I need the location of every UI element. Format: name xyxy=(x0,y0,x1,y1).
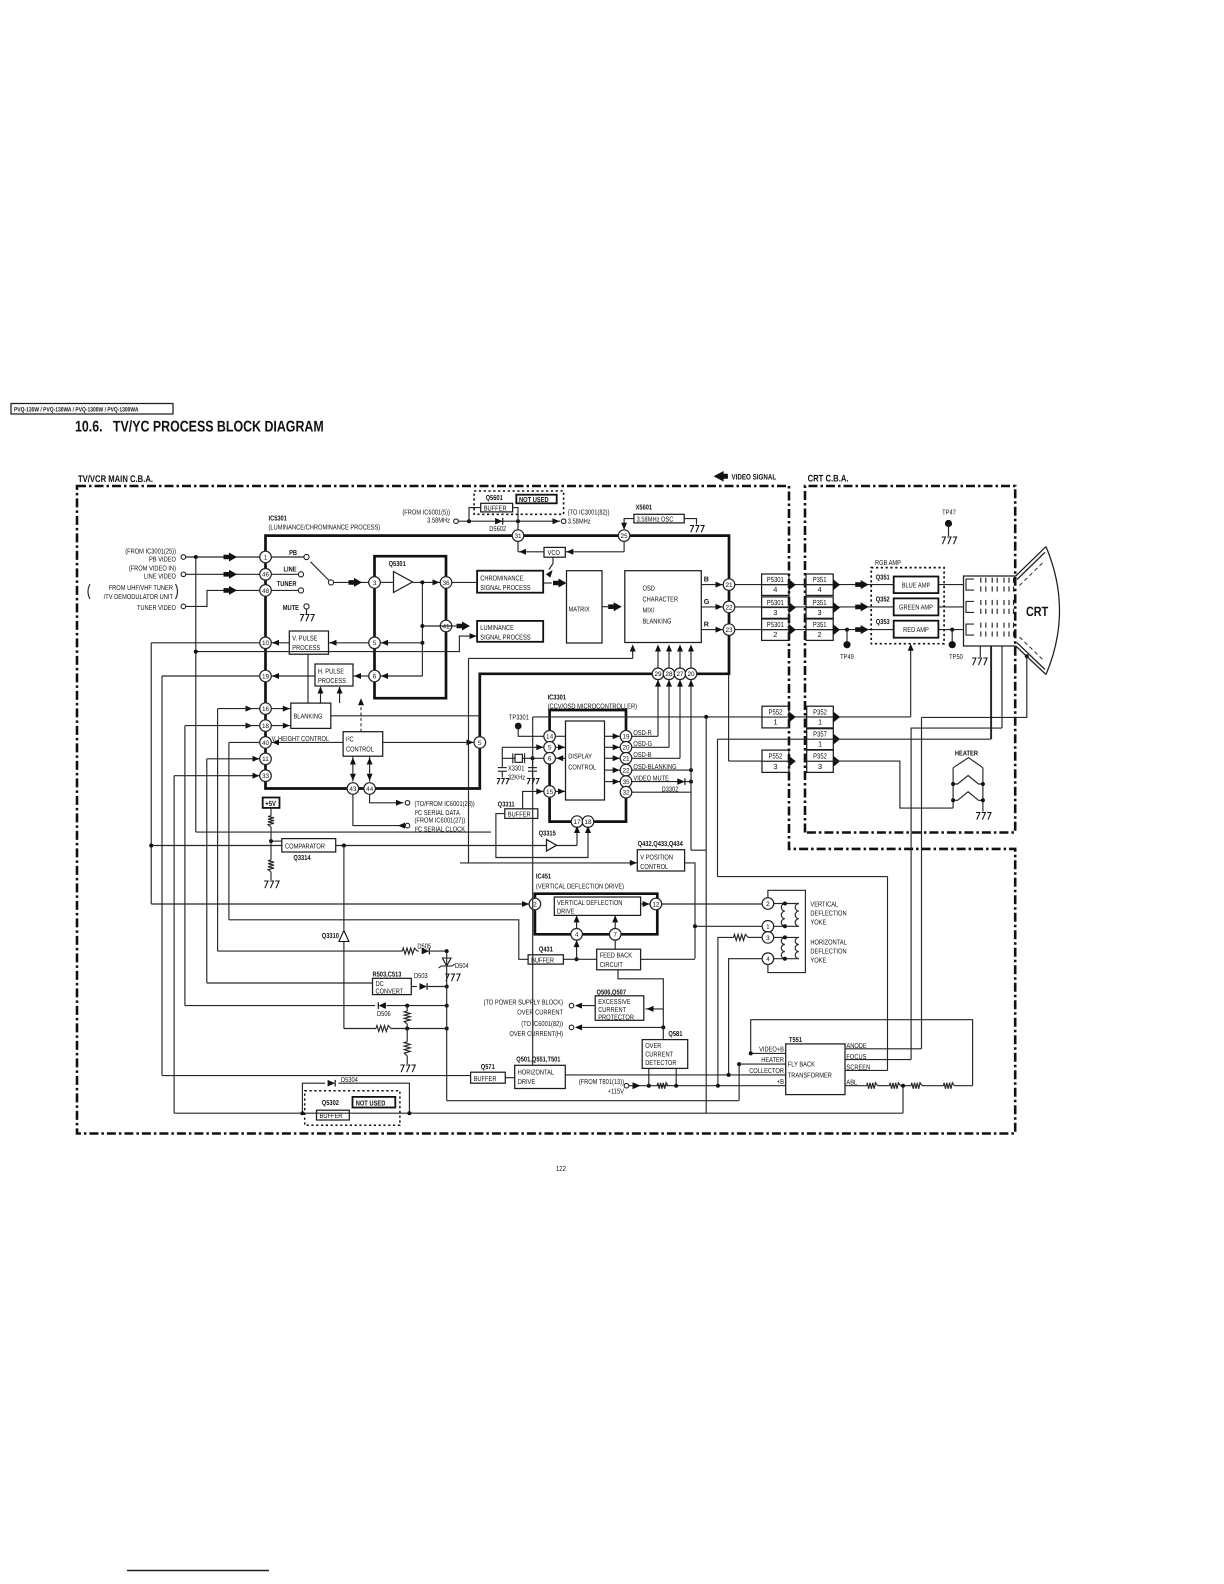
svg-text:GREEN AMP: GREEN AMP xyxy=(899,604,933,612)
svg-text:2: 2 xyxy=(533,901,537,908)
svg-text:VERTICAL DEFLECTION: VERTICAL DEFLECTION xyxy=(557,899,622,907)
svg-text:18: 18 xyxy=(262,723,270,730)
svg-text:YOKE: YOKE xyxy=(810,957,826,965)
svg-text:COMPARATOR: COMPARATOR xyxy=(285,843,325,851)
svg-text:VIDEO+B: VIDEO+B xyxy=(759,1046,784,1054)
svg-text:NOT USED: NOT USED xyxy=(519,495,549,504)
svg-text:Q3314: Q3314 xyxy=(293,854,310,862)
svg-text:31: 31 xyxy=(514,533,522,540)
svg-text:2: 2 xyxy=(766,901,770,908)
svg-text:Q353: Q353 xyxy=(876,618,890,626)
svg-text:P552: P552 xyxy=(769,707,783,716)
svg-text:TUNER: TUNER xyxy=(277,580,297,588)
svg-text:DRIVE: DRIVE xyxy=(557,907,575,915)
svg-text:19: 19 xyxy=(622,734,630,741)
svg-text:LINE: LINE xyxy=(284,566,297,574)
svg-text:VIDEO SIGNAL: VIDEO SIGNAL xyxy=(732,473,777,482)
svg-text:OVER: OVER xyxy=(645,1042,661,1050)
svg-text:BUFFER: BUFFER xyxy=(508,811,531,819)
svg-text:7: 7 xyxy=(613,932,617,939)
svg-text:TP50: TP50 xyxy=(949,653,963,661)
svg-text:BUFFER: BUFFER xyxy=(474,1075,497,1083)
svg-text:CONTROL: CONTROL xyxy=(640,863,668,871)
svg-text:23: 23 xyxy=(725,627,733,634)
svg-text:(FROM IC6001(27)): (FROM IC6001(27)) xyxy=(415,817,466,825)
svg-text:(TO IC3001(82)): (TO IC3001(82)) xyxy=(568,509,610,517)
svg-text:CHARACTER: CHARACTER xyxy=(643,596,679,604)
svg-text:P5301: P5301 xyxy=(767,620,784,629)
svg-text:35: 35 xyxy=(622,779,630,786)
svg-text:X5601: X5601 xyxy=(636,504,653,512)
svg-text:3: 3 xyxy=(766,935,770,942)
svg-text:1: 1 xyxy=(264,554,268,561)
svg-text:Q352: Q352 xyxy=(876,596,890,604)
svg-text:CONVERT: CONVERT xyxy=(376,988,404,996)
svg-text:25: 25 xyxy=(621,533,629,540)
svg-text:TRANSFORMER: TRANSFORMER xyxy=(788,1072,832,1080)
svg-text:P351: P351 xyxy=(813,575,827,584)
svg-text:Q431: Q431 xyxy=(539,946,553,954)
svg-text:4: 4 xyxy=(575,932,579,939)
svg-text:D505: D505 xyxy=(417,943,431,951)
svg-text:CONTROL: CONTROL xyxy=(346,745,374,753)
svg-text:21: 21 xyxy=(725,582,733,589)
svg-text:22: 22 xyxy=(725,604,733,611)
svg-text:I²C: I²C xyxy=(346,735,354,743)
svg-text:RGB AMP: RGB AMP xyxy=(875,559,901,567)
svg-text:V. PULSE: V. PULSE xyxy=(292,635,317,643)
svg-text:Q351: Q351 xyxy=(876,573,890,581)
svg-text:HEATER: HEATER xyxy=(761,1056,784,1064)
svg-text:Q3311: Q3311 xyxy=(498,801,515,809)
svg-text:DEFLECTION: DEFLECTION xyxy=(810,910,846,918)
svg-text:(TO POWER SUPPLY BLOCK): (TO POWER SUPPLY BLOCK) xyxy=(484,999,563,1007)
svg-text:P351: P351 xyxy=(813,598,827,607)
svg-text:TV/VCR MAIN C.B.A.: TV/VCR MAIN C.B.A. xyxy=(78,474,153,485)
svg-text:BLUE AMP: BLUE AMP xyxy=(902,582,931,590)
svg-text:VERTICAL: VERTICAL xyxy=(810,901,838,909)
svg-text:HORIZONTAL: HORIZONTAL xyxy=(518,1068,554,1076)
svg-text:X3301: X3301 xyxy=(508,765,525,773)
svg-text:RED AMP: RED AMP xyxy=(903,626,929,634)
svg-text:IC451: IC451 xyxy=(536,873,551,881)
svg-text:(VERTICAL DEFLECTION DRIVE): (VERTICAL DEFLECTION DRIVE) xyxy=(536,883,624,891)
svg-text:18: 18 xyxy=(584,819,592,826)
svg-text:BLANKING: BLANKING xyxy=(643,618,672,626)
svg-text:DRIVE: DRIVE xyxy=(518,1078,536,1086)
svg-text:2: 2 xyxy=(773,630,777,639)
svg-text:TP3301: TP3301 xyxy=(509,714,529,722)
svg-text:1: 1 xyxy=(766,924,770,931)
svg-text:P552: P552 xyxy=(769,752,783,761)
svg-text:Q501,Q551,T501: Q501,Q551,T501 xyxy=(516,1056,560,1064)
svg-text:17: 17 xyxy=(573,819,581,826)
svg-text:CHROMINANCE: CHROMINANCE xyxy=(480,574,523,582)
svg-text:P5301: P5301 xyxy=(767,598,784,607)
svg-text:Q5302: Q5302 xyxy=(322,1099,339,1107)
svg-text:6: 6 xyxy=(373,673,377,680)
svg-text:43: 43 xyxy=(349,786,357,793)
svg-text:10: 10 xyxy=(262,640,270,647)
svg-text:CRT: CRT xyxy=(1026,604,1049,619)
svg-text:Q3310: Q3310 xyxy=(322,932,339,940)
svg-text:OSD: OSD xyxy=(643,585,655,593)
svg-text:OSD-G: OSD-G xyxy=(633,740,652,748)
svg-text:D3302: D3302 xyxy=(662,786,679,794)
svg-text:5: 5 xyxy=(478,740,482,747)
svg-text:LUMINANCE: LUMINANCE xyxy=(480,624,514,632)
svg-text:15: 15 xyxy=(546,789,554,796)
svg-text:3: 3 xyxy=(373,580,377,587)
svg-text:FEED BACK: FEED BACK xyxy=(600,952,633,960)
svg-text:36: 36 xyxy=(442,580,450,587)
svg-text:PROCESS: PROCESS xyxy=(292,644,320,652)
svg-text:IC3301: IC3301 xyxy=(548,694,566,702)
svg-text:Q3315: Q3315 xyxy=(539,830,556,838)
svg-text:DETECTOR: DETECTOR xyxy=(645,1059,676,1067)
svg-text:4: 4 xyxy=(773,585,777,594)
svg-text:29: 29 xyxy=(654,671,662,678)
svg-text:HORIZONTAL: HORIZONTAL xyxy=(810,939,846,947)
svg-text:OSD-B: OSD-B xyxy=(633,751,651,759)
svg-text:5: 5 xyxy=(373,640,377,647)
svg-text:P352: P352 xyxy=(813,707,827,716)
svg-text:IC5301: IC5301 xyxy=(269,515,287,523)
svg-text:Q571: Q571 xyxy=(481,1063,495,1071)
svg-text:32KHz: 32KHz xyxy=(508,774,526,782)
svg-text:V POSITION: V POSITION xyxy=(640,853,673,861)
svg-text:(LUMINANCE/CHROMINANCE PROCESS: (LUMINANCE/CHROMINANCE PROCESS) xyxy=(269,524,381,532)
svg-text:11: 11 xyxy=(262,756,269,763)
svg-text:32: 32 xyxy=(622,790,630,797)
svg-text:OSD-BLANKING: OSD-BLANKING xyxy=(633,763,677,771)
svg-text:OSD-R: OSD-R xyxy=(633,729,651,737)
svg-text:3.58MHz: 3.58MHz xyxy=(568,518,591,526)
svg-text:TP49: TP49 xyxy=(840,653,854,661)
svg-text:TP47: TP47 xyxy=(942,509,956,517)
svg-text:PB VIDEO: PB VIDEO xyxy=(149,556,176,564)
svg-text:D5304: D5304 xyxy=(341,1076,358,1084)
svg-text:FLY BACK: FLY BACK xyxy=(788,1061,815,1069)
svg-text:ABL: ABL xyxy=(846,1078,857,1086)
svg-text:T551: T551 xyxy=(789,1036,802,1044)
svg-text:44: 44 xyxy=(366,786,374,793)
svg-text:R503,C513: R503,C513 xyxy=(373,971,402,979)
svg-text:28: 28 xyxy=(665,671,673,678)
svg-text:EXCESSIVE: EXCESSIVE xyxy=(598,998,631,1006)
svg-text:NOT USED: NOT USED xyxy=(356,1098,386,1107)
svg-text:1: 1 xyxy=(818,739,822,748)
svg-text:3: 3 xyxy=(818,762,822,771)
svg-text:P352: P352 xyxy=(813,752,827,761)
svg-text:VCO: VCO xyxy=(548,549,561,557)
svg-text:OVER CURRENT(H): OVER CURRENT(H) xyxy=(509,1030,563,1038)
svg-text:10.6. TV/YC PROCESS BLOCK DI: 10.6. TV/YC PROCESS BLOCK DIAGRAM xyxy=(75,419,324,436)
svg-text:PB: PB xyxy=(289,549,297,557)
svg-text:MIX/: MIX/ xyxy=(643,607,655,615)
svg-text:D504: D504 xyxy=(455,962,469,970)
svg-text:TUNER VIDEO: TUNER VIDEO xyxy=(137,604,176,612)
svg-text:CONTROL: CONTROL xyxy=(568,764,596,772)
svg-text:40: 40 xyxy=(262,740,270,747)
svg-text:6: 6 xyxy=(548,756,552,763)
svg-text:22: 22 xyxy=(622,768,630,775)
svg-text:46: 46 xyxy=(262,572,270,579)
svg-text:5: 5 xyxy=(548,745,552,752)
svg-text:3: 3 xyxy=(773,608,777,617)
svg-text:(FROM IC6001(5)): (FROM IC6001(5)) xyxy=(402,509,450,517)
svg-text:CIRCUIT: CIRCUIT xyxy=(600,961,624,969)
svg-text:(FROM IC3001(25)): (FROM IC3001(25)) xyxy=(125,548,176,556)
svg-text:I²C SERIAL CLOCK: I²C SERIAL CLOCK xyxy=(415,826,466,834)
svg-text:PVQ-130W / PVQ-130WA / PVQ-130: PVQ-130W / PVQ-130WA / PVQ-1300W / PVQ-1… xyxy=(14,406,139,413)
svg-text:19: 19 xyxy=(262,673,270,680)
svg-text:D5602: D5602 xyxy=(489,525,506,533)
svg-text:DISPLAY: DISPLAY xyxy=(568,753,592,761)
svg-text:20: 20 xyxy=(687,671,695,678)
svg-text:16: 16 xyxy=(262,706,270,713)
svg-text:3.58MHz OSC: 3.58MHz OSC xyxy=(637,515,674,523)
svg-text:PROCESS: PROCESS xyxy=(318,677,346,685)
svg-text:OVER CURRENT: OVER CURRENT xyxy=(517,1009,563,1017)
svg-text:BUFFER: BUFFER xyxy=(484,504,507,512)
svg-text:VIDEO MUTE: VIDEO MUTE xyxy=(633,774,669,782)
svg-text:HEATER: HEATER xyxy=(955,750,979,758)
svg-text:(FROM VIDEO IN): (FROM VIDEO IN) xyxy=(129,565,176,573)
svg-text:2: 2 xyxy=(818,630,822,639)
svg-text:G: G xyxy=(704,598,710,606)
svg-text:+5V: +5V xyxy=(265,799,276,808)
svg-text:4: 4 xyxy=(766,956,770,963)
svg-text:1: 1 xyxy=(773,718,777,727)
svg-text:Q432,Q433,Q434: Q432,Q433,Q434 xyxy=(638,840,683,848)
svg-text:CRT C.B.A.: CRT C.B.A. xyxy=(808,474,849,485)
svg-text:20: 20 xyxy=(622,745,630,752)
svg-text:3: 3 xyxy=(773,762,777,771)
svg-text:R: R xyxy=(704,621,710,629)
svg-text:Q5301: Q5301 xyxy=(389,560,406,568)
svg-text:122: 122 xyxy=(556,1164,566,1173)
svg-text:/TV DEMODULATOR UNIT: /TV DEMODULATOR UNIT xyxy=(104,593,174,601)
svg-text:P357: P357 xyxy=(813,730,827,739)
svg-text:Q581: Q581 xyxy=(668,1030,682,1038)
svg-text:P5301: P5301 xyxy=(767,575,784,584)
svg-text:B: B xyxy=(704,576,709,584)
svg-text:14: 14 xyxy=(546,734,554,741)
svg-text:BLANKING: BLANKING xyxy=(294,713,323,721)
svg-text:1: 1 xyxy=(818,718,822,727)
svg-text:12: 12 xyxy=(652,901,660,908)
svg-text:D506: D506 xyxy=(377,1010,391,1018)
svg-text:CURRENT: CURRENT xyxy=(645,1051,673,1059)
svg-text:SIGNAL PROCESS: SIGNAL PROCESS xyxy=(480,634,530,642)
svg-text:BUFFER: BUFFER xyxy=(320,1112,343,1120)
svg-text:D503: D503 xyxy=(414,972,428,980)
svg-text:DEFLECTION: DEFLECTION xyxy=(810,948,846,956)
svg-text:33: 33 xyxy=(262,773,270,780)
svg-text:Q5601: Q5601 xyxy=(486,494,503,502)
svg-text:P351: P351 xyxy=(813,620,827,629)
svg-text:3: 3 xyxy=(818,608,822,617)
svg-text:+115V: +115V xyxy=(608,1088,624,1096)
svg-text:41: 41 xyxy=(442,623,450,630)
svg-text:FROM UHF/VHF TUNER: FROM UHF/VHF TUNER xyxy=(109,584,173,592)
svg-text:PROTECTOR: PROTECTOR xyxy=(598,1013,634,1021)
svg-text:48: 48 xyxy=(262,588,270,595)
svg-text:(FROM T801(13)): (FROM T801(13)) xyxy=(579,1078,624,1086)
svg-text:4: 4 xyxy=(818,585,822,594)
svg-text:SIGNAL PROCESS: SIGNAL PROCESS xyxy=(480,584,530,592)
svg-text:(TO/FROM IC6001(28)): (TO/FROM IC6001(28)) xyxy=(415,800,475,808)
svg-text:+B: +B xyxy=(777,1078,784,1086)
svg-text:LINE VIDEO: LINE VIDEO xyxy=(144,573,176,581)
svg-text:MUTE: MUTE xyxy=(283,604,299,612)
svg-text:V. HEIGHT CONTROL: V. HEIGHT CONTROL xyxy=(272,735,330,743)
svg-text:21: 21 xyxy=(622,756,630,763)
svg-text:MATRIX: MATRIX xyxy=(569,606,590,614)
svg-text:3.58MHz: 3.58MHz xyxy=(427,517,450,525)
svg-text:(TO IC6001(82)): (TO IC6001(82)) xyxy=(521,1020,563,1028)
svg-text:YOKE: YOKE xyxy=(810,919,826,927)
svg-text:27: 27 xyxy=(676,671,684,678)
svg-text:BUFFER: BUFFER xyxy=(531,957,554,965)
svg-text:COLLECTOR: COLLECTOR xyxy=(749,1067,784,1075)
svg-text:H. PULSE: H. PULSE xyxy=(318,668,344,676)
